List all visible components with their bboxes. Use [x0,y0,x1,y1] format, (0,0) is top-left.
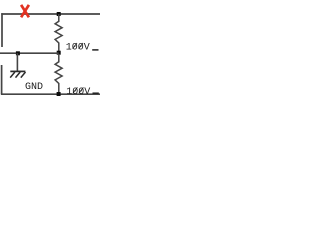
node C: junction dot on middle wire [16,51,20,55]
wire: ground stub [16,53,18,71]
wire: middle horizontal to ground tap [0,52,59,54]
slashed zeros of label 1 [73,43,83,49]
svg-text:100V: 100V [66,42,90,53]
resistor R2 [55,54,62,94]
ground symbol [10,71,25,77]
node B: junction dot between resistors [57,51,61,55]
underscore of label 2 [93,92,99,94]
background [0,0,100,100]
wire: upper-left vertical segment [1,13,3,47]
node D: junction dot on bottom wire [57,92,61,96]
wire: bottom horizontal rail [1,93,100,95]
svg-text:100V: 100V [66,87,90,98]
svg-text:GND: GND [25,82,43,93]
slashed zeros of label 2 [73,87,83,93]
red X marker on top wire [21,5,29,17]
wire: top horizontal rail [1,13,100,15]
underscore of label 1 [92,49,98,51]
wire: lower-left vertical segment [1,65,3,94]
node A: junction dot on top wire [57,12,61,16]
resistor R1 [55,14,62,53]
